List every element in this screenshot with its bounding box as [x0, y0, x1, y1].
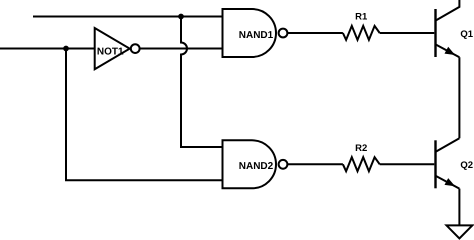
gate NAND2 output bubble — [279, 160, 288, 169]
resistor R1 zigzag — [343, 26, 380, 40]
wire R2 to Q2 base — [380, 163, 435, 165]
inverter NOT1 triangle — [95, 28, 130, 69]
transistor Q2 emitter arrow — [445, 178, 456, 186]
resistor R2 zigzag — [343, 157, 380, 171]
wire top rail to NAND1 input A — [33, 16, 223, 18]
wire Q1 emitter to Q2 collector — [458, 57, 460, 138]
inverter NOT1 output bubble — [131, 44, 140, 53]
wire left input rail to NOT1 — [0, 48, 95, 50]
gate NAND2 body — [223, 140, 277, 188]
transistor Q2 base bar — [434, 140, 436, 188]
transistor Q1 collector lead to top edge — [436, 0, 460, 21]
wire branch: vertical with hop over NOT1 output, to NAND2 input A — [181, 17, 223, 148]
wire NOT1 output to NAND1 input B — [140, 48, 223, 50]
svg-text:Q2: Q2 — [460, 160, 473, 171]
svg-text:R2: R2 — [355, 143, 367, 154]
transistor Q1 emitter lead — [436, 44, 460, 57]
wire Q2 emitter to ground — [458, 189, 460, 226]
wire NAND2 output to R2 — [287, 163, 343, 165]
svg-text:NAND1: NAND1 — [239, 30, 274, 41]
node junction left rail — [63, 46, 69, 52]
svg-text:NOT1: NOT1 — [97, 46, 124, 57]
gate NAND1 body — [223, 9, 277, 57]
wire NAND1 output to R1 — [287, 32, 343, 34]
wire R1 to Q1 base — [380, 32, 435, 34]
wire branch: left rail down to NAND2 input B — [66, 49, 223, 181]
transistor Q2 emitter lead — [436, 176, 460, 189]
ground symbol — [447, 225, 473, 238]
transistor Q2 collector lead — [436, 138, 460, 152]
svg-text:NAND2: NAND2 — [239, 161, 274, 172]
svg-text:R1: R1 — [355, 12, 368, 23]
transistor Q1 base bar — [434, 9, 436, 57]
transistor Q1 emitter arrow — [445, 47, 456, 55]
node junction top rail — [178, 14, 184, 20]
svg-text:Q1: Q1 — [460, 29, 473, 40]
gate NAND1 output bubble — [279, 29, 288, 38]
